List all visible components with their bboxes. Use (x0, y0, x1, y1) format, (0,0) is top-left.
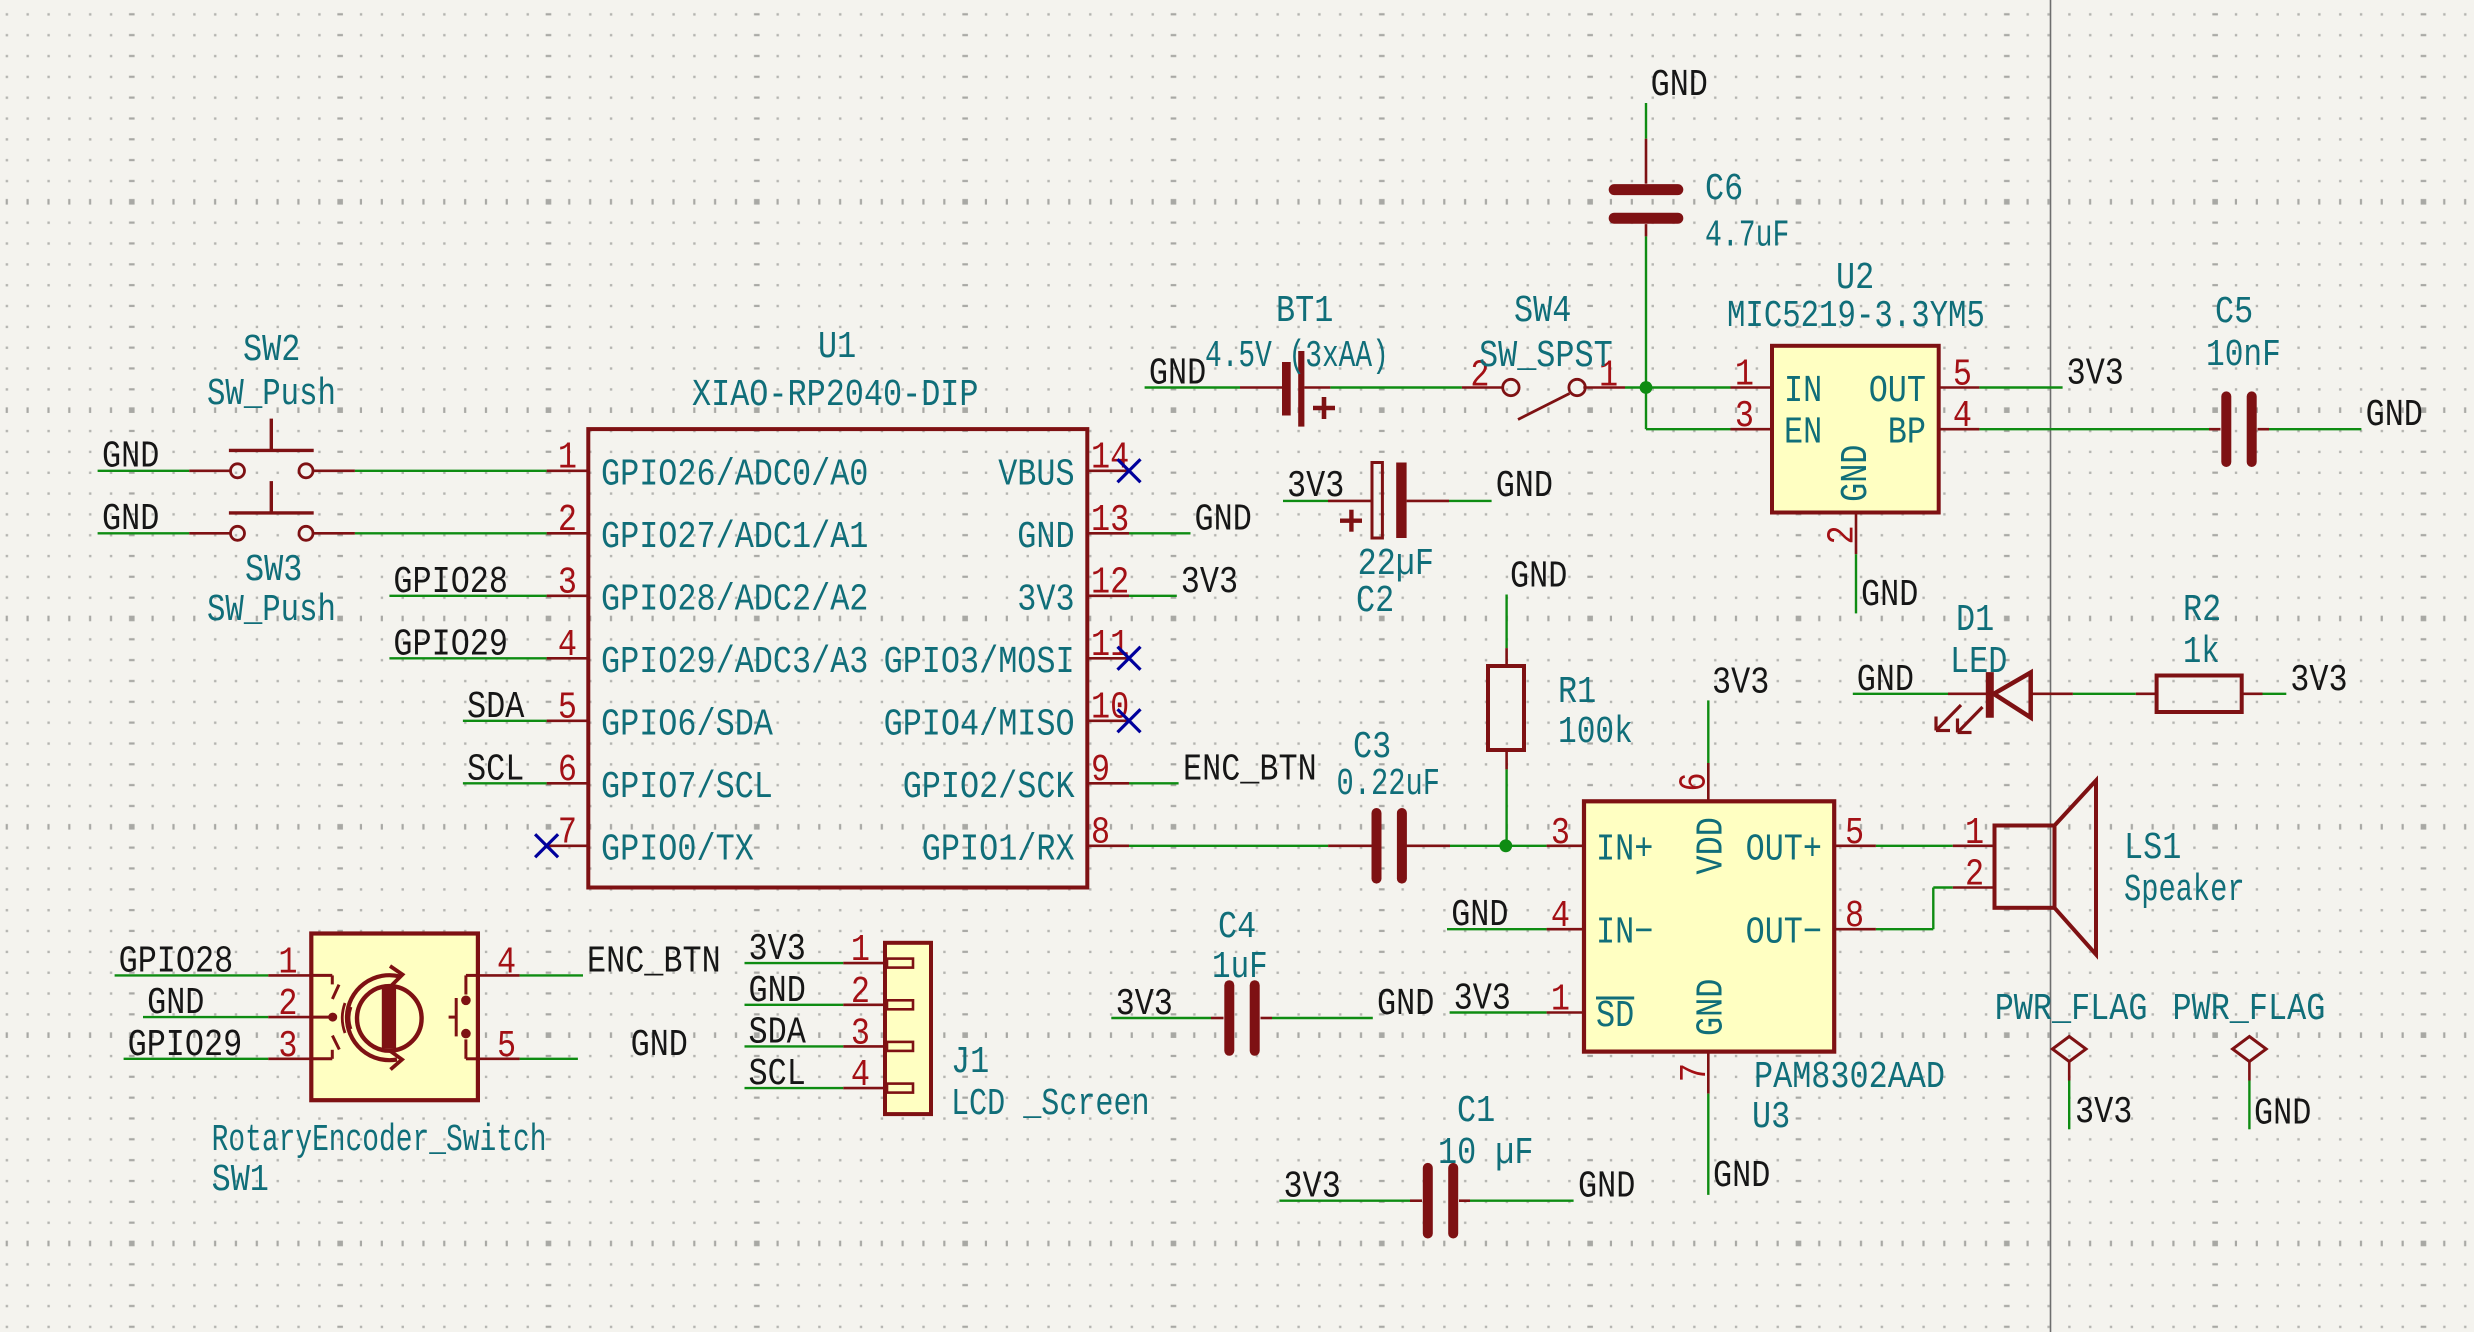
svg-text:GPIO29/ADC3/A3: GPIO29/ADC3/A3 (601, 642, 868, 684)
svg-text:ENC_BTN: ENC_BTN (1183, 749, 1317, 791)
svg-text:12: 12 (1091, 563, 1129, 605)
svg-text:GND: GND (2366, 395, 2423, 437)
svg-text:SW1: SW1 (212, 1160, 269, 1202)
svg-text:4: 4 (1551, 896, 1570, 938)
svg-text:MIC5219-3.3YM5: MIC5219-3.3YM5 (1727, 296, 1985, 338)
svg-text:4: 4 (497, 942, 516, 984)
svg-text:RotaryEncoder_Switch: RotaryEncoder_Switch (212, 1120, 547, 1162)
svg-text:10: 10 (1091, 688, 1129, 730)
svg-text:4: 4 (851, 1055, 870, 1097)
svg-text:GPIO6/SDA: GPIO6/SDA (601, 704, 773, 746)
svg-text:GND: GND (1861, 575, 1918, 617)
svg-text:SW3: SW3 (245, 550, 302, 592)
svg-text:GND: GND (1451, 895, 1508, 937)
svg-text:SW_Push: SW_Push (207, 590, 336, 632)
svg-text:1k: 1k (2183, 632, 2220, 674)
svg-text:J1: J1 (951, 1042, 989, 1084)
svg-text:2: 2 (558, 500, 577, 542)
svg-text:1: 1 (1735, 355, 1754, 397)
svg-text:2: 2 (278, 984, 297, 1026)
svg-text:8: 8 (1845, 896, 1864, 938)
svg-text:8: 8 (1091, 813, 1110, 855)
svg-text:LS1: LS1 (2124, 828, 2181, 870)
svg-text:PWR_FLAG: PWR_FLAG (1995, 989, 2148, 1031)
svg-text:GND: GND (1651, 65, 1708, 107)
svg-text:GND: GND (1510, 557, 1567, 599)
svg-text:U1: U1 (818, 327, 856, 369)
svg-text:1: 1 (278, 942, 297, 984)
svg-text:5: 5 (558, 688, 577, 730)
svg-text:GPIO29: GPIO29 (393, 624, 508, 666)
svg-text:3V3: 3V3 (1454, 979, 1511, 1021)
svg-text:C1: C1 (1457, 1091, 1495, 1133)
svg-text:3V3: 3V3 (1181, 562, 1238, 604)
svg-text:GND: GND (631, 1025, 688, 1067)
svg-text:GND: GND (1017, 517, 1074, 559)
svg-text:Speaker: Speaker (2124, 870, 2245, 912)
svg-text:1uF: 1uF (1212, 947, 1268, 989)
svg-text:GND: GND (1836, 445, 1878, 502)
svg-text:2: 2 (851, 972, 870, 1014)
svg-text:VBUS: VBUS (998, 454, 1074, 496)
svg-text:6: 6 (558, 750, 577, 792)
svg-text:SW_SPST: SW_SPST (1479, 336, 1613, 378)
svg-text:GND: GND (1149, 354, 1206, 396)
svg-text:GPIO28: GPIO28 (393, 562, 508, 604)
svg-text:2: 2 (1823, 525, 1865, 544)
svg-text:GND: GND (1195, 499, 1252, 541)
svg-text:SCL: SCL (749, 1054, 806, 1096)
svg-text:3V3: 3V3 (1712, 662, 1769, 704)
svg-text:C6: C6 (1705, 169, 1743, 211)
svg-text:C3: C3 (1353, 727, 1391, 769)
svg-text:13: 13 (1091, 500, 1129, 542)
svg-text:R2: R2 (2183, 590, 2221, 632)
svg-text:SW_Push: SW_Push (207, 374, 336, 416)
svg-text:3V3: 3V3 (1284, 1167, 1341, 1209)
svg-text:GND: GND (102, 436, 159, 478)
svg-text:C5: C5 (2215, 292, 2253, 334)
svg-text:BT1: BT1 (1276, 291, 1333, 333)
svg-text:OUT: OUT (1869, 371, 1926, 413)
svg-text:IN−: IN− (1596, 913, 1653, 955)
svg-text:11: 11 (1091, 625, 1129, 667)
svg-text:1: 1 (1965, 813, 1984, 855)
svg-text:SDA: SDA (467, 687, 525, 729)
svg-text:GND: GND (102, 499, 159, 541)
svg-text:3V3: 3V3 (2067, 354, 2124, 396)
svg-text:VDD: VDD (1692, 817, 1734, 874)
svg-text:1: 1 (558, 438, 577, 480)
svg-text:10nF: 10nF (2206, 335, 2281, 377)
svg-text:1: 1 (1551, 980, 1570, 1022)
svg-text:GPIO2/SCK: GPIO2/SCK (903, 767, 1075, 809)
svg-text:1: 1 (851, 930, 870, 972)
svg-text:5: 5 (1845, 813, 1864, 855)
svg-text:BP: BP (1888, 413, 1926, 455)
svg-text:GND: GND (749, 971, 806, 1013)
svg-text:EN: EN (1784, 413, 1822, 455)
svg-text:3V3: 3V3 (2075, 1092, 2132, 1134)
svg-text:3: 3 (851, 1013, 870, 1055)
svg-text:3: 3 (1735, 396, 1754, 438)
svg-text:GND: GND (1496, 466, 1553, 508)
svg-text:GND: GND (1713, 1156, 1770, 1198)
svg-text:9: 9 (1091, 750, 1110, 792)
svg-text:5: 5 (497, 1026, 516, 1068)
svg-text:4: 4 (558, 625, 577, 667)
svg-text:3V3: 3V3 (749, 929, 806, 971)
svg-text:4.7uF: 4.7uF (1705, 216, 1789, 258)
svg-text:14: 14 (1091, 438, 1129, 480)
svg-text:OUT+: OUT+ (1746, 829, 1822, 871)
svg-text:SCL: SCL (467, 749, 524, 791)
svg-text:GND: GND (147, 983, 204, 1025)
svg-text:2: 2 (1965, 855, 1984, 897)
svg-text:ENC_BTN: ENC_BTN (587, 941, 721, 983)
svg-text:7: 7 (1675, 1063, 1717, 1082)
svg-text:U3: U3 (1752, 1097, 1790, 1139)
svg-text:GND: GND (1578, 1167, 1635, 1209)
svg-text:GPIO29: GPIO29 (128, 1025, 243, 1067)
svg-text:5: 5 (1953, 355, 1972, 397)
svg-text:IN: IN (1784, 371, 1822, 413)
svg-text:GPIO26/ADC0/A0: GPIO26/ADC0/A0 (601, 454, 868, 496)
svg-text:GND: GND (1692, 979, 1734, 1036)
svg-text:GPIO27/ADC1/A1: GPIO27/ADC1/A1 (601, 517, 868, 559)
svg-text:3V3: 3V3 (2290, 660, 2347, 702)
svg-text:GPIO28: GPIO28 (119, 941, 234, 983)
svg-text:GPIO7/SCL: GPIO7/SCL (601, 767, 773, 809)
svg-text:3V3: 3V3 (1116, 984, 1173, 1026)
svg-text:XIAO-RP2040-DIP: XIAO-RP2040-DIP (692, 375, 979, 417)
svg-text:10 µF: 10 µF (1438, 1133, 1534, 1175)
svg-text:7: 7 (558, 813, 577, 855)
svg-text:6: 6 (1675, 772, 1717, 791)
svg-text:U2: U2 (1836, 258, 1874, 300)
svg-text:SDA: SDA (749, 1012, 807, 1054)
svg-text:4.5V (3xAA): 4.5V (3xAA) (1205, 336, 1389, 378)
svg-text:GPIO3/MOSI: GPIO3/MOSI (884, 642, 1075, 684)
svg-text:OUT−: OUT− (1746, 913, 1822, 955)
svg-text:SD: SD (1596, 996, 1634, 1038)
svg-text:3: 3 (278, 1026, 297, 1068)
svg-text:3: 3 (558, 563, 577, 605)
svg-text:R1: R1 (1558, 672, 1596, 714)
svg-text:GPIO0/TX: GPIO0/TX (601, 829, 754, 871)
svg-text:GND: GND (1857, 660, 1914, 702)
svg-text:0.22uF: 0.22uF (1337, 764, 1441, 806)
svg-text:LCD _Screen: LCD _Screen (951, 1084, 1150, 1126)
svg-text:IN+: IN+ (1596, 829, 1653, 871)
svg-text:3: 3 (1551, 813, 1570, 855)
svg-text:C4: C4 (1218, 907, 1256, 949)
svg-text:GND: GND (1377, 984, 1434, 1026)
svg-text:C2: C2 (1356, 581, 1394, 623)
svg-text:SW2: SW2 (243, 330, 300, 372)
svg-text:4: 4 (1953, 396, 1972, 438)
svg-text:GPIO4/MISO: GPIO4/MISO (884, 704, 1075, 746)
svg-text:PAM8302AAD: PAM8302AAD (1754, 1057, 1945, 1099)
svg-text:GPIO1/RX: GPIO1/RX (922, 829, 1075, 871)
svg-text:D1: D1 (1956, 600, 1994, 642)
svg-text:GPIO28/ADC2/A2: GPIO28/ADC2/A2 (601, 579, 868, 621)
svg-text:SW4: SW4 (1514, 291, 1571, 333)
svg-text:22µF: 22µF (1358, 544, 1434, 586)
svg-text:PWR_FLAG: PWR_FLAG (2173, 989, 2326, 1031)
svg-text:3V3: 3V3 (1017, 579, 1074, 621)
svg-text:GND: GND (2254, 1094, 2311, 1136)
svg-text:100k: 100k (1558, 712, 1633, 754)
svg-text:LED: LED (1950, 642, 2007, 684)
